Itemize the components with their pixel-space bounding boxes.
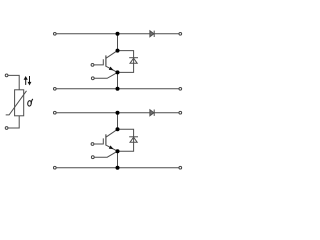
down arrow indicator of R1 xyxy=(28,76,32,86)
wire freewheeling branch of T2 xyxy=(118,129,134,151)
up arrow indicator of R1 xyxy=(24,76,28,85)
terminal 6 (top rail 2 right) xyxy=(179,111,182,114)
thermistor R1 (temperature dependent resistor) xyxy=(5,74,26,129)
junction node on bottom rail 2 xyxy=(116,166,120,170)
wire freewheeling branch of T1 xyxy=(118,51,134,73)
junction node collector T1 xyxy=(116,49,120,53)
wire emitter of T2 xyxy=(117,151,119,168)
wire top rail 2 xyxy=(56,112,179,114)
terminal 5 (top rail 2 left) xyxy=(53,111,56,114)
diode D1 (series diode on top rail) xyxy=(150,31,154,37)
wire bottom rail 2 xyxy=(56,167,179,169)
wire top rail 1 xyxy=(56,33,179,35)
diode D4 (freewheeling diode of T2) xyxy=(129,137,138,143)
wire collector of T2 xyxy=(117,113,119,130)
junction node on top rail 1 xyxy=(116,32,120,36)
terminal 7 (bottom rail left) xyxy=(53,166,56,169)
theta value label of R1 xyxy=(27,99,32,106)
terminal 1 (top rail left) xyxy=(53,32,56,35)
terminal 8 (bottom rail right) xyxy=(179,166,182,169)
junction node on top rail 2 xyxy=(116,111,120,115)
junction node collector T2 xyxy=(116,127,120,131)
IGBT T1 xyxy=(91,51,117,80)
IGBT T2 xyxy=(91,129,117,158)
terminal 2 (top rail right) xyxy=(179,32,182,35)
junction node emitter T2 xyxy=(116,149,120,153)
wire emitter of T1 xyxy=(117,72,119,88)
wire mid rail 1 xyxy=(56,88,179,90)
terminal 3 (mid rail left) xyxy=(53,87,56,90)
junction node emitter T1 xyxy=(116,70,120,74)
diode D3 (series diode on top rail 2) xyxy=(150,110,154,116)
junction node on mid rail 1 xyxy=(116,87,120,91)
wire collector of T1 xyxy=(117,34,119,51)
terminal 4 (mid rail right) xyxy=(179,87,182,90)
diode D2 (freewheeling diode of T1) xyxy=(129,58,138,64)
